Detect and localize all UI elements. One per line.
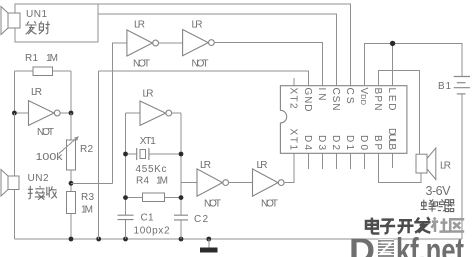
pin BP wire to buzzer bottom: [379, 153, 421, 182]
svg-text:kf.net: kf.net: [396, 232, 464, 257]
svg-text:3-6V: 3-6V: [426, 184, 452, 198]
node dot ground symbol: [206, 237, 211, 242]
inverter NOT3 (second top LR): [183, 30, 323, 86]
pin DULB stub: [392, 153, 394, 168]
node dot NOT1 output: [69, 111, 74, 116]
svg-text:D: D: [349, 232, 375, 257]
svg-text:LR: LR: [440, 161, 451, 172]
svg-text:NOT: NOT: [204, 199, 221, 210]
svg-text:C2: C2: [194, 214, 208, 225]
wire oscillator left rail: [125, 113, 127, 239]
node dot R4 right: [179, 195, 184, 200]
wire R1 left leg: [13, 71, 15, 113]
node dot R4 left: [123, 195, 128, 200]
svg-text:LR: LR: [192, 20, 203, 31]
svg-text:NOT: NOT: [261, 199, 278, 210]
watermark 电子开发社区: [366, 217, 431, 233]
svg-text:XT2: XT2: [288, 88, 299, 109]
ground: [200, 239, 218, 253]
node dot GND rail bottom: [96, 237, 101, 242]
svg-text:NOT: NOT: [37, 127, 54, 138]
wire R3 bottom: [70, 214, 72, 240]
pin LED wire: [392, 43, 394, 85]
svg-text:LR: LR: [134, 20, 145, 31]
wire battery negative rail: [461, 94, 463, 239]
wire ground rail bottom: [14, 238, 461, 240]
svg-text:GND: GND: [302, 88, 313, 112]
resistor R1: [14, 67, 71, 76]
wire R2 bottom to R3 top: [70, 170, 72, 192]
UN1 box: [15, 4, 98, 42]
wire feedback vertical (to top gates input): [112, 43, 127, 183]
capacitor C2: [174, 215, 188, 220]
svg-text:LR: LR: [200, 160, 211, 171]
pin D2 stub: [336, 153, 338, 169]
wire top B (UN1 box right to CSN pin): [98, 14, 337, 86]
speaker UN1: [1, 7, 20, 35]
svg-text:LR: LR: [257, 160, 268, 171]
node dot C2 bottom: [179, 237, 184, 242]
svg-text:CSN: CSN: [330, 88, 341, 111]
label 蜂鸣器 (buzzer): [421, 199, 455, 211]
inverter NOT4 (oscillator LR): [126, 101, 182, 125]
wire UN2 top: [13, 113, 15, 176]
inverter NOT2 (top left LR): [127, 30, 183, 56]
node dot NOT1 input: [12, 111, 17, 116]
svg-text:1M: 1M: [46, 53, 58, 64]
svg-text:BP: BP: [372, 135, 383, 150]
buzzer speaker: [416, 148, 436, 180]
svg-text:100k: 100k: [36, 152, 64, 163]
svg-text:C1: C1: [141, 213, 154, 224]
node dot supply/LED: [390, 41, 395, 46]
pin D0 stub: [364, 153, 366, 169]
wire oscillator right rail: [180, 113, 182, 239]
svg-text:DULB: DULB: [386, 128, 397, 150]
label 接收 (receive): [28, 186, 57, 200]
svg-text:LR: LR: [31, 87, 42, 98]
pin VDD wire to supply: [365, 43, 462, 85]
svg-text:IN: IN: [316, 88, 327, 101]
svg-text:LR: LR: [143, 89, 154, 100]
pin D4 stub: [307, 153, 309, 169]
svg-text:NOT: NOT: [192, 59, 209, 70]
pin BPN wire to buzzer top: [379, 70, 420, 154]
battery B1: [454, 77, 470, 94]
svg-text:LED: LED: [386, 88, 397, 111]
wire GND net (left vertical): [98, 71, 100, 239]
svg-text:UN2: UN2: [28, 173, 49, 184]
svg-text:1M: 1M: [156, 176, 168, 187]
potentiometer R2: [59, 137, 79, 171]
inverter NOT6 (bottom right LR): [253, 153, 295, 196]
capacitor C1: [118, 215, 134, 219]
node dot R3 bottom: [69, 237, 74, 242]
svg-text:B1: B1: [438, 81, 451, 92]
svg-text:XT1: XT1: [288, 129, 299, 151]
node dot XT1 right: [179, 152, 184, 157]
pin D3 stub: [322, 153, 324, 169]
wire XT2 stub: [293, 78, 295, 86]
wire junction to feedback vertical: [71, 182, 112, 184]
svg-text:100px2: 100px2: [134, 226, 170, 237]
resistor R3: [67, 192, 76, 214]
wire NOT1 output down to R2: [70, 113, 72, 140]
watermark Dzkf.net logo: [349, 232, 464, 257]
speaker UN2: [1, 170, 19, 197]
node dot R2/R3 junction: [69, 181, 74, 186]
svg-text:BPN: BPN: [372, 88, 383, 111]
svg-text:R3: R3: [81, 192, 94, 203]
svg-text:R2: R2: [80, 144, 93, 155]
resistor R4: [126, 193, 182, 202]
wire R1 right leg: [70, 71, 72, 113]
wire GND net (horizontal to GND pin): [99, 71, 309, 86]
svg-text:UN1: UN1: [26, 9, 47, 20]
wire UN2 bottom: [13, 190, 15, 240]
svg-text:XT1: XT1: [140, 136, 156, 147]
node dot XT1 left: [123, 152, 128, 157]
svg-text:NOT: NOT: [133, 59, 150, 70]
inverter NOT5 (bottom LR): [181, 169, 253, 196]
svg-text:VDD: VDD: [358, 88, 369, 106]
label 发射 (transmit): [25, 21, 50, 34]
svg-text:1M: 1M: [81, 205, 93, 216]
wire top A (UN1 box top to CS pin): [98, 4, 351, 86]
svg-text:R4: R4: [136, 176, 149, 187]
pin D1 stub: [350, 153, 352, 169]
inverter NOT1 (LR): [14, 101, 71, 126]
node dot C1 bottom: [123, 237, 128, 242]
svg-text:455Kc: 455Kc: [136, 164, 167, 175]
IC U1 body: [280, 86, 407, 154]
svg-text:R1: R1: [25, 53, 38, 64]
crystal XT1: [126, 148, 182, 160]
